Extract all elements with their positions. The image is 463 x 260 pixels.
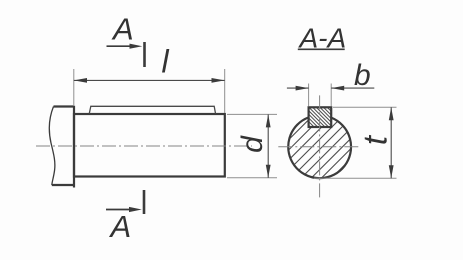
section arrow A top xyxy=(107,45,133,47)
shaft body xyxy=(74,114,225,177)
dimension t extension lines xyxy=(314,107,397,178)
dimension b extension lines xyxy=(309,84,332,107)
white under key square xyxy=(309,107,332,127)
vertical centerline (section view) xyxy=(319,95,321,198)
svg-text:A: A xyxy=(111,12,134,47)
svg-text:l: l xyxy=(162,44,170,80)
key square hatching xyxy=(287,104,353,130)
section line tick A bottom xyxy=(143,190,146,214)
svg-text:t: t xyxy=(357,134,394,145)
svg-text:d: d xyxy=(236,135,269,153)
dimension d line with arrows xyxy=(267,114,269,177)
centerline (left view) xyxy=(36,145,252,147)
svg-text:A: A xyxy=(109,209,132,244)
dimension l extension lines xyxy=(74,69,225,113)
key square outline (section) xyxy=(309,107,332,127)
dimension t line with arrows xyxy=(390,107,392,178)
dimension b line with outside arrows xyxy=(287,87,374,89)
dimension l line with arrows xyxy=(74,79,225,81)
shaft shoulder (left broken end) xyxy=(49,106,75,188)
key (side view, on top of shaft) xyxy=(89,106,215,113)
circle hatching (section of shaft) xyxy=(178,80,450,220)
dimension d extension lines xyxy=(227,114,277,177)
svg-text:b: b xyxy=(354,59,371,92)
shaft section circle outline (broken at keyway) xyxy=(288,117,351,178)
section arrow A bottom xyxy=(106,209,132,211)
A-A underline xyxy=(298,48,345,50)
section line tick A top xyxy=(143,42,146,67)
horizontal centerline (section view) xyxy=(278,146,359,148)
